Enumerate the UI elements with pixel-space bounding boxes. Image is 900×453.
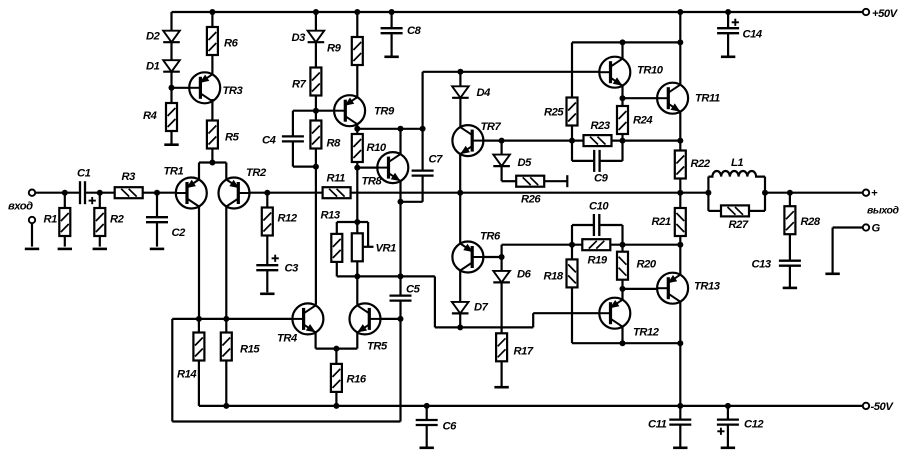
svg-text:L1: L1 [731,157,743,169]
svg-text:+50V: +50V [872,8,899,20]
resistor R10 [352,134,363,162]
capacitor C13 [779,261,801,266]
wire TR8 emitter down [399,202,401,277]
junction [223,316,229,322]
diode D2 [163,31,180,43]
svg-text:TR7: TR7 [481,121,502,133]
svg-text:D6: D6 [517,269,532,281]
svg-text:R8: R8 [327,138,342,150]
wire R12 to C3 [266,236,268,266]
junction [569,138,575,144]
inductor L1 [708,171,765,177]
resistor R16 [331,364,342,392]
wire C10 left riser [571,225,573,245]
resistor R24 [617,106,628,134]
wire TR4 emitter [315,332,317,348]
wire input to C1 [35,192,80,194]
wire D6 to R17 [501,282,503,333]
wire to D4 [459,72,461,87]
resistor R17 [496,333,507,361]
resistor R8 [310,121,321,149]
junction [620,95,626,101]
diode D3 [308,31,325,43]
svg-text:TR12: TR12 [633,327,660,339]
resistor R26 [516,176,544,187]
junction [398,199,404,205]
wire TR5 emitter [356,332,358,348]
transistor TR7 [452,125,483,156]
wire D5 to R26 [501,166,503,181]
wire VR1 top stem [356,222,358,233]
resistor R27 [721,205,749,216]
capacitor C8 [381,28,403,33]
junction [223,403,229,409]
diode D1 [163,60,180,71]
svg-text:R7: R7 [292,79,307,91]
capacitor C6 [416,420,438,425]
transistor TR4 [292,303,323,334]
wire TR11 emitter [679,112,681,141]
resistor R4 [166,103,177,131]
wire D2-D1 [170,42,172,60]
svg-text:TR4: TR4 [277,333,298,345]
wire R3 to TR1 base [143,192,176,194]
wire rail to C14 [727,12,729,28]
wire to R26 [502,180,517,182]
wire VR1 wiper drop [367,222,369,247]
ground [25,248,39,251]
wire to R2 [99,193,101,208]
resistor R7 [310,68,321,96]
wire main output net [351,192,709,194]
svg-text:D2: D2 [146,31,161,43]
wire to TR13 base [623,288,658,290]
svg-text:TR3: TR3 [223,85,244,97]
ground [150,248,164,251]
ground [494,386,508,389]
wire rail to C8 [391,12,393,28]
svg-text:R13: R13 [321,210,341,222]
wire VR1 wiper [363,246,374,248]
junction [313,164,319,170]
svg-text:D4: D4 [477,87,492,99]
resistor R14 [193,333,204,361]
junction [420,126,426,132]
svg-text:D7: D7 [474,302,489,314]
junction [787,190,793,196]
svg-text:R27: R27 [729,219,749,231]
wire C4 to R8 line [293,166,316,168]
wire feedback to TR4 node [172,318,199,320]
resistor R20 [617,252,628,280]
wire R22 to output net [679,179,681,193]
junction [424,403,430,409]
junction [677,9,683,15]
polarity + C14 [732,19,739,26]
svg-text:R20: R20 [637,259,657,271]
transistor TR13 [657,273,688,304]
wire lower emitter link [572,342,680,344]
wire C14 to ground [727,33,729,56]
wire lower link [435,326,533,328]
wire to TR5 collector [356,276,358,304]
junction [677,138,683,144]
svg-text:C9: C9 [594,173,609,185]
junction [725,9,731,15]
wire R10 to VR1 node [356,162,358,222]
transistor TR5 [350,303,381,334]
resistor R18 [567,259,578,287]
svg-text:R11: R11 [327,173,346,185]
junction [389,9,395,15]
wire to R15 [225,319,227,333]
svg-text:R26: R26 [521,194,541,206]
junction [677,39,683,45]
ground [93,248,107,251]
svg-text:C1: C1 [77,168,91,180]
wire TR11 collector [679,42,681,84]
svg-text:C13: C13 [752,259,772,271]
ground [825,272,839,275]
junction [677,242,683,248]
junction [457,190,463,196]
wire C4 top stem [292,111,294,137]
junction [499,138,505,144]
svg-text:C4: C4 [262,135,277,147]
wire base riser [532,313,534,327]
resistor R25 [567,98,578,126]
wire C6 to ground [426,425,428,448]
wire to TR11 base [623,97,658,99]
wire R27 right [749,210,765,212]
wire R16 to rail [335,392,337,406]
wire TR10 emitter [621,86,623,98]
wire to R1 [64,193,66,208]
capacitor C11 [669,420,691,425]
wire C13 to ground [789,266,791,288]
junction [705,190,711,196]
junction [354,273,360,279]
wire R15 to rail [225,361,227,406]
junction [620,286,626,292]
wire rail to C12 [727,406,729,420]
wire R4 to ground [170,131,172,145]
svg-text:R17: R17 [514,346,534,358]
wire R17 to ground [501,361,503,387]
wire C7 bottom stem [422,176,424,202]
wire R18 down [571,287,573,343]
svg-text:R9: R9 [327,43,342,55]
wire to R18 [571,245,573,260]
resistor R28 [784,206,795,234]
junction [762,190,768,196]
wire feedback bottom [172,420,400,422]
junction [313,9,319,15]
ground [673,446,687,449]
svg-text:R21: R21 [652,216,671,228]
svg-text:выход: выход [867,205,900,217]
resistor R12 [262,208,273,236]
ground [384,55,398,58]
svg-text:C5: C5 [406,284,421,296]
ground [721,446,735,449]
svg-text:R25: R25 [544,107,564,119]
wire R7 to node [315,96,317,121]
wire upper node to TR10 base [423,71,600,73]
wire C1 to R3 [85,192,115,194]
transistor TR12 [599,298,630,329]
svg-text:TR6: TR6 [480,231,501,243]
svg-text:R24: R24 [633,115,653,127]
wire drop [434,276,436,327]
svg-text:R22: R22 [691,158,711,170]
svg-text:R1: R1 [44,214,58,226]
wire to -50V rail [679,343,681,406]
polarity + C3 [272,255,279,262]
transistor TR9 [334,95,365,126]
wire L1 right bracket [764,177,766,211]
capacitor C14 [717,28,739,33]
svg-text:TR5: TR5 [367,341,388,353]
transistor TR11 [657,83,688,114]
wire TR3 emitter to R5 [211,99,213,121]
wire feedback riser [171,319,173,422]
svg-text:R19: R19 [588,255,608,267]
wire D1 to node [170,72,172,103]
junction [354,219,360,225]
svg-text:R6: R6 [224,38,239,50]
junction [354,126,360,132]
svg-text:-50V: -50V [871,401,895,413]
svg-text:TR1: TR1 [164,166,184,178]
wire R1 to ground [64,236,66,247]
resistor R21 [675,208,686,236]
junction [209,160,215,166]
svg-text:R15: R15 [240,344,260,356]
junction [169,85,175,91]
ground [164,143,178,146]
wire G terminal [833,226,863,228]
capacitor C3 [256,265,278,270]
wire to R27 [708,210,721,212]
ground [58,248,72,251]
wire to R12 [266,193,268,208]
wire R14 to rail [198,361,200,406]
wire TR7 emitter to output net [459,154,461,193]
wire TR5 base [380,318,400,320]
wire tail split [199,161,226,163]
wire R6 to TR3 collector [211,55,213,77]
wire R28 to C13 [789,234,791,261]
junction [620,340,626,346]
svg-text:TR9: TR9 [374,106,395,118]
junction [264,190,270,196]
svg-text:C8: C8 [407,25,422,37]
terminal -50V [863,403,869,409]
wire D4 to TR7 collector [459,98,461,128]
wire VR1 bottom stem [356,261,358,276]
wire R8 to TR4 collector [315,149,317,305]
terminal input ground [29,217,35,223]
wire to TR2 emitter [225,163,227,181]
wire R5 to tail node [211,149,213,163]
wire to R13 [336,222,338,234]
resistor R3 [115,187,143,198]
diode D6 [493,271,510,283]
wire TR13 emitter [679,302,681,344]
wire R21 bottom [679,236,681,245]
junction [354,165,360,171]
resistor R11 [323,187,351,198]
transistor TR2 [219,178,250,209]
capacitor C7 [412,171,434,176]
resistor R1 [59,208,70,236]
polarity + C12 [717,428,724,435]
capacitor C12 [717,420,739,425]
wire to C10 [572,224,594,226]
capacitor C9 [594,150,599,172]
wire to R22 [679,141,681,151]
ground [420,446,434,449]
svg-text:C6: C6 [443,421,458,433]
wire TR6 base [483,256,501,258]
junction [620,138,626,144]
wire C8 to ground [391,33,393,56]
wire to TR8 base [357,167,384,169]
wire R25 bottom [571,126,573,141]
resistor R6 [207,27,218,55]
wire -50V rail [199,405,863,407]
resistor R22 [675,151,686,179]
wire to C9 [572,160,594,162]
capacitor C1 [80,181,85,204]
svg-text:D3: D3 [292,32,307,44]
svg-text:G: G [872,223,881,235]
wire to R24 [621,98,623,106]
svg-text:R5: R5 [225,132,240,144]
wire R9 to TR9 emitter [356,65,358,97]
wire R19 to R21 node [610,244,680,246]
wire C12 to ground [727,425,729,448]
terminal output + [863,190,869,196]
wire to R16 [335,349,337,364]
svg-text:R14: R14 [177,369,197,381]
wire node to TR3 base [172,87,201,89]
wire rail to C11 [679,406,681,420]
svg-text:R18: R18 [544,271,564,283]
wire TR10 collector [621,42,623,59]
terminal +50V [863,9,869,15]
wire C4 bottom stem [292,141,294,166]
junction [333,403,339,409]
wire rail to R6 [211,12,213,27]
junction [313,108,319,114]
transistor TR8 [377,152,408,183]
wire R20 bottom [621,280,623,289]
wire VR1 bottom net [337,275,435,277]
svg-text:C3: C3 [285,263,300,275]
wire C10 right drop [621,225,623,245]
svg-text:R12: R12 [278,213,298,225]
resistor R5 [207,121,218,149]
wire C9 left drop [571,141,573,161]
wire to R14 [198,319,200,333]
junction [569,242,575,248]
capacitor C10 [594,214,599,236]
svg-text:D1: D1 [146,61,160,73]
wire D3 to R7 [315,42,317,67]
junction [499,254,505,260]
svg-text:C11: C11 [648,419,667,431]
wire to R19 [502,244,583,246]
wire base riser [501,245,503,257]
wire to C2 [156,193,158,218]
junction [677,190,683,196]
trimmer VR1 [352,233,363,261]
svg-text:R16: R16 [347,374,367,386]
wire collector link [572,41,680,43]
svg-text:C7: C7 [429,154,444,166]
ground [260,292,274,295]
wire C3 to ground [266,270,268,292]
svg-text:TR11: TR11 [695,93,720,105]
svg-text:C14: C14 [743,29,763,41]
diode D4 [452,86,469,98]
stub end bar [566,175,568,187]
wire TR4 base net [199,318,293,320]
junction [457,324,463,330]
wire TR8 collector [399,129,401,155]
resistor R19 [582,239,610,250]
svg-text:D5: D5 [518,157,533,169]
transistor TR6 [452,242,483,273]
wire R23 to TR11 emitter node [612,140,681,142]
svg-text:TR10: TR10 [637,65,664,77]
wire node to TR9 base [293,110,335,112]
junction [398,316,404,322]
resistor R9 [352,37,363,65]
diode D5 [493,155,510,167]
junction [677,403,683,409]
svg-text:R3: R3 [122,171,137,183]
junction [62,190,68,196]
svg-text:C12: C12 [744,419,764,431]
junction [620,39,626,45]
wire to D5 [501,141,503,155]
junction [725,403,731,409]
wire TR7 base to R23 [483,140,583,142]
wire to output terminal [765,192,863,194]
wire rail to TR10/TR11 node [679,12,681,42]
wire TR13 collector [679,245,681,275]
wire R24 bottom [621,134,623,141]
terminal output G [863,224,869,230]
junction [333,346,339,352]
polarity + C1 [89,197,96,204]
wire C5 top stem [399,276,401,295]
wire emitter to C7 [401,201,423,203]
wire C9 right [600,160,623,162]
wire R26 stub [544,180,567,182]
wire D7 to lower wire [459,313,461,327]
transistor TR3 [189,72,220,103]
ground [721,55,735,58]
wire to R10 [356,129,358,134]
junction [196,316,202,322]
junction [677,340,683,346]
transistor TR10 [599,57,630,88]
wire TR2 collector down [225,206,227,319]
